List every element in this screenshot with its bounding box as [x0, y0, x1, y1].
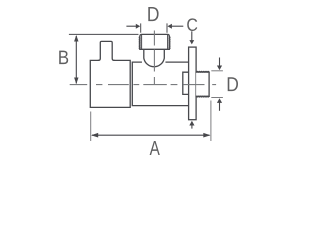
vertical center line through cap: [153, 31, 155, 85]
hex cap right knurl: [168, 36, 171, 49]
label C: [187, 18, 197, 31]
label B: [59, 51, 68, 65]
stub thread crests top: [196, 70, 209, 73]
label D right: [228, 77, 238, 91]
arrow A left: [91, 133, 98, 138]
handle stub on top of body: [99, 41, 115, 60]
dim line B: [75, 36, 77, 84]
pipe bottom arrowhead up: [189, 121, 194, 126]
threaded stub (wall connection): [196, 72, 209, 96]
D right top arrow tail: [219, 58, 221, 67]
dim line D top left segment: [126, 25, 136, 27]
outlet tube to pipe: [132, 62, 188, 106]
socket notch at pipe joint: [183, 72, 189, 94]
horizontal center line (axis): [70, 84, 216, 86]
stub thread crests bottom: [196, 95, 209, 98]
C leader line: [191, 31, 193, 40]
valve body (main cylinder): [90, 60, 130, 107]
ext tick D-right top: [211, 70, 223, 72]
label D top: [148, 7, 158, 21]
ext line B top: [69, 33, 139, 35]
arrow D top right: [168, 24, 172, 29]
pipe bottom arrow tail: [191, 125, 193, 129]
ext tick D-top left: [140, 23, 142, 32]
bonnet neck + dome: [144, 49, 165, 66]
arrow B bottom: [74, 78, 78, 85]
hex cap body: [140, 34, 169, 49]
ext tick D-right bottom: [211, 97, 223, 99]
ext line A left: [90, 112, 92, 142]
arrow D top left: [136, 24, 140, 29]
hex cap left knurl: [138, 36, 141, 49]
ext tick D-top right: [166, 23, 168, 32]
C arrowhead down to pipe top: [189, 40, 194, 44]
D right bottom arrowhead: [217, 98, 222, 103]
arrow A right: [203, 133, 210, 138]
label A: [150, 141, 160, 155]
arrow B top: [74, 35, 78, 42]
hex cap inner face lines: [142, 35, 168, 49]
dim line D top right segment: [171, 25, 183, 27]
dim line A: [92, 134, 210, 136]
D right top arrowhead: [217, 66, 222, 71]
vertical riser pipe: [189, 47, 197, 120]
ext line A right: [210, 101, 212, 142]
D right bottom arrow tail: [219, 103, 221, 111]
